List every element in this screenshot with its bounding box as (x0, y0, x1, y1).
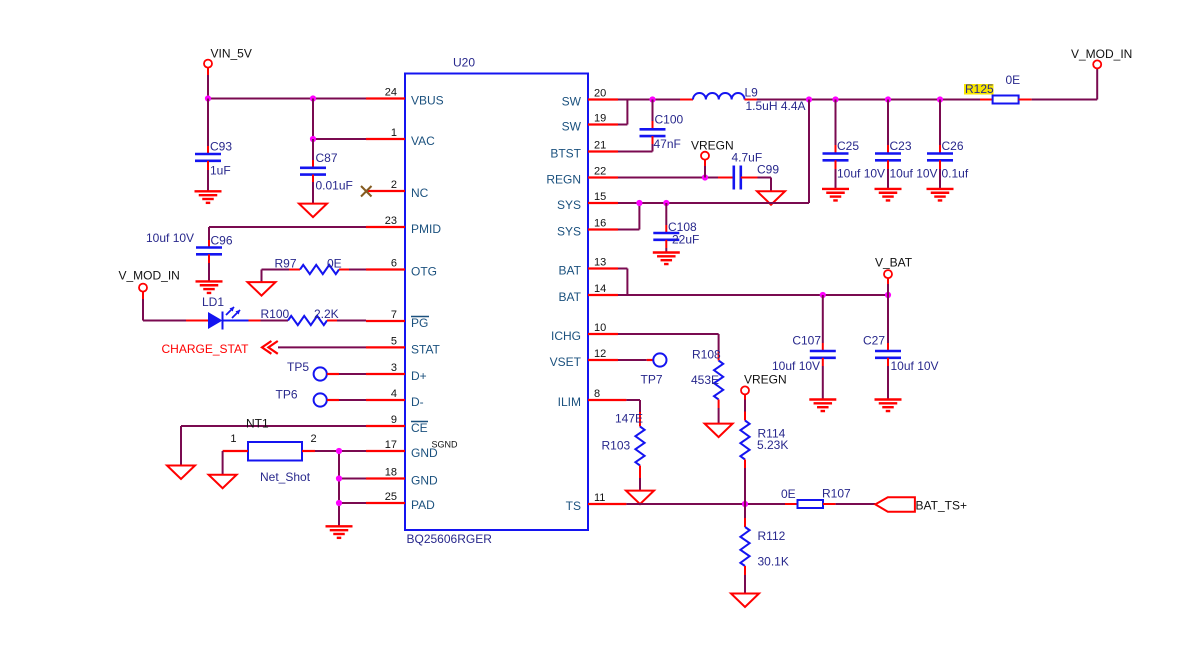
wire ICHG net (618, 334, 719, 352)
node VREGN port (top) (691, 139, 734, 178)
resistor R97 (275, 257, 367, 275)
node junction GND17 (336, 448, 342, 454)
svg-text:9: 9 (391, 414, 397, 426)
svg-text:PG: PG (411, 316, 428, 330)
test point TP7 (618, 353, 667, 386)
pin 8 ILIM (right) (558, 388, 627, 409)
svg-text:47nF: 47nF (654, 137, 681, 151)
svg-text:23: 23 (385, 215, 397, 227)
ground signal-gnd under GND column (326, 526, 353, 538)
pin 22 REGN (right) (546, 166, 618, 187)
svg-text:PAD: PAD (411, 498, 435, 512)
wire CE net (181, 426, 366, 466)
svg-text:VSET: VSET (550, 355, 582, 369)
pin 15 SYS (right) (557, 191, 618, 212)
svg-text:1.5uH 4.4A: 1.5uH 4.4A (746, 99, 806, 113)
svg-text:6: 6 (391, 258, 397, 270)
svg-text:V_BAT: V_BAT (875, 256, 913, 270)
svg-text:C107: C107 (792, 334, 821, 348)
node junction C26 (937, 96, 943, 102)
wire STAT net (278, 346, 366, 348)
capacitor C25 (823, 100, 886, 189)
wire SW net (618, 99, 680, 101)
svg-text:PMID: PMID (411, 222, 441, 236)
test point TP5 (287, 360, 366, 381)
wire ILIM net (626, 400, 640, 412)
svg-text:V_MOD_IN: V_MOD_IN (119, 269, 180, 283)
svg-text:10uf 10V: 10uf 10V (891, 359, 939, 373)
svg-text:13: 13 (594, 257, 606, 269)
svg-text:TP7: TP7 (641, 373, 663, 387)
node junction PAD (336, 500, 342, 506)
capacitor C107 (772, 295, 836, 400)
svg-text:STAT: STAT (411, 342, 441, 356)
svg-text:1uF: 1uF (210, 164, 231, 178)
svg-text:CE: CE (411, 421, 428, 435)
pin 4 D- (left) (366, 388, 424, 409)
svg-text:C26: C26 (942, 139, 964, 153)
ground signal-gnd under C93 (195, 191, 222, 203)
node junction C108 (663, 200, 669, 206)
ground signal-gnd under C26 (927, 189, 954, 201)
svg-text:10uf 10V: 10uf 10V (772, 359, 820, 373)
pin 13 BAT (right) (559, 257, 618, 278)
svg-text:30.1K: 30.1K (758, 555, 789, 569)
node junction GND18 (336, 475, 342, 481)
pin 3 D+ (left) (366, 362, 427, 383)
svg-text:C25: C25 (837, 139, 859, 153)
pin 19 SW (right) (562, 113, 618, 134)
svg-text:5.23K: 5.23K (757, 438, 788, 452)
pin 21 BTST (right) (550, 140, 618, 161)
node junction C107 (820, 292, 826, 298)
ground power-gnd under R103 (626, 491, 654, 505)
op-amp U1: IC U20 BQ25606RGER body (405, 56, 588, 547)
pin 1 VAC (left) (366, 127, 435, 148)
svg-text:BAT: BAT (559, 290, 582, 304)
node junction V_BAT (885, 292, 891, 298)
svg-text:0E: 0E (327, 257, 342, 271)
capacitor C87 (300, 139, 353, 204)
pin 10 ICHG (right) (551, 322, 618, 343)
capacitor C100 (640, 100, 684, 152)
svg-text:VBUS: VBUS (411, 94, 444, 108)
svg-text:VAC: VAC (411, 134, 435, 148)
svg-text:19: 19 (594, 113, 606, 125)
svg-text:OTG: OTG (411, 265, 437, 279)
svg-text:C23: C23 (890, 139, 912, 153)
pin 7 PG (left) (366, 309, 429, 330)
svg-text:5: 5 (391, 335, 397, 347)
svg-text:14: 14 (594, 283, 606, 295)
svg-text:ICHG: ICHG (551, 329, 581, 343)
svg-text:BTST: BTST (550, 147, 581, 161)
wire BAT net (618, 294, 888, 296)
wire PMID net (209, 227, 366, 248)
capacitor C23 (875, 100, 938, 189)
svg-text:0E: 0E (781, 487, 796, 501)
svg-text:4: 4 (391, 388, 397, 400)
pin 23 PMID (left) (366, 215, 441, 236)
node NT1 label (246, 417, 269, 431)
svg-text:20: 20 (594, 88, 606, 100)
wire BTST net (618, 151, 653, 153)
resistor R114 (740, 400, 788, 505)
svg-text:R100: R100 (261, 307, 290, 321)
svg-text:D-: D- (411, 395, 424, 409)
svg-text:1: 1 (230, 433, 236, 445)
svg-text:V_MOD_IN: V_MOD_IN (1071, 47, 1132, 61)
svg-text:BAT_TS+: BAT_TS+ (916, 499, 967, 513)
svg-text:22uF: 22uF (672, 233, 699, 247)
node junction C100 top (649, 96, 655, 102)
pin 5 STAT (left) (366, 335, 441, 356)
ground power-gnd under C99 (757, 191, 785, 205)
svg-text:R97: R97 (275, 257, 297, 271)
wire SW pin19 join (618, 100, 627, 125)
svg-text:C87: C87 (316, 151, 338, 165)
node junction C25 (832, 96, 838, 102)
test point TP6 (276, 388, 367, 407)
pin 20 SW (right) (562, 88, 618, 109)
svg-text:147E: 147E (615, 412, 643, 426)
svg-text:SW: SW (562, 95, 582, 109)
svg-text:TP5: TP5 (287, 360, 309, 374)
ground power-gnd on R97 (248, 282, 276, 296)
pin 14 BAT (right) (559, 283, 618, 304)
pin 17 GND (left) (366, 439, 458, 460)
svg-text:Net_Shot: Net_Shot (260, 470, 311, 484)
svg-text:21: 21 (594, 140, 606, 152)
wire V_MOD_IN net (1032, 68, 1098, 99)
ground signal-gnd under C25 (822, 189, 849, 201)
svg-text:10: 10 (594, 322, 606, 334)
pin 18 GND (left) (366, 467, 438, 488)
node BAT_TS+ port (875, 497, 967, 512)
svg-text:C93: C93 (210, 140, 232, 154)
svg-text:C96: C96 (211, 234, 233, 248)
svg-text:R108: R108 (692, 348, 721, 362)
node junction SYS drop (806, 96, 812, 102)
wire SW output rail (757, 99, 980, 101)
resistor R100 (249, 307, 367, 325)
svg-text:3: 3 (391, 362, 397, 374)
resistor R107 (781, 487, 875, 509)
wire TS net (626, 503, 785, 505)
ground power-gnd under R108 (705, 424, 733, 438)
node junction VAC (310, 136, 316, 142)
svg-text:10uf 10V: 10uf 10V (890, 167, 938, 181)
svg-text:VIN_5V: VIN_5V (211, 47, 252, 61)
node CHARGE_STAT sheet-entry (162, 341, 278, 356)
pin 2 NC (left) (366, 179, 429, 200)
svg-text:REGN: REGN (546, 173, 581, 187)
svg-text:U20: U20 (453, 56, 475, 70)
svg-text:15: 15 (594, 191, 606, 203)
svg-text:17: 17 (385, 439, 397, 451)
wire BAT pin13 join (618, 269, 627, 296)
svg-text:1: 1 (391, 127, 397, 139)
pin 12 VSET (right) (550, 348, 618, 369)
wire SYS net (618, 100, 809, 204)
svg-text:24: 24 (385, 87, 397, 99)
svg-text:7: 7 (391, 309, 397, 321)
svg-text:BQ25606RGER: BQ25606RGER (407, 532, 493, 546)
svg-text:2.2K: 2.2K (314, 307, 339, 321)
capacitor C96 (146, 231, 233, 281)
node V_MOD_IN port (left) (119, 269, 187, 321)
svg-text:R107: R107 (822, 487, 851, 501)
svg-text:SYS: SYS (557, 198, 581, 212)
capacitor C93 (195, 99, 232, 192)
resistor R103 (602, 412, 645, 491)
svg-text:VREGN: VREGN (744, 373, 787, 387)
pin 6 OTG (left) (366, 258, 437, 279)
node junction SYS16 (636, 200, 642, 206)
capacitor C27 (863, 295, 939, 400)
ground power-gnd under C87 (299, 204, 327, 218)
svg-text:C27: C27 (863, 334, 885, 348)
node V_MOD_IN port (right) (1071, 47, 1132, 68)
ground power-gnd on CE (167, 466, 195, 480)
resistor R125 (964, 73, 1032, 104)
svg-text:R112: R112 (758, 529, 786, 543)
no-connect X on pin 2 (361, 186, 372, 197)
svg-text:TS: TS (566, 499, 581, 513)
pin 24 VBUS (left) (366, 87, 444, 108)
node junction VIN/C93 (205, 95, 211, 101)
svg-text:BAT: BAT (559, 264, 582, 278)
capacitor C99 (718, 151, 779, 192)
resistor R112 (740, 504, 788, 594)
pin 16 SYS (right) (557, 218, 618, 239)
svg-text:GND: GND (411, 474, 438, 488)
svg-text:C100: C100 (655, 113, 684, 127)
resistor R108 (691, 348, 723, 424)
pin 11 TS (right) (566, 492, 627, 513)
ground signal-gnd under C107 (809, 400, 836, 412)
svg-text:R103: R103 (602, 439, 631, 453)
ground power-gnd on Net_Shot pin1 (209, 475, 237, 489)
node junction VREGN (702, 174, 708, 180)
pin 1 Net_Shot (223, 433, 248, 475)
wire REGN net (618, 177, 718, 179)
capacitor C26 (927, 100, 969, 189)
svg-text:12: 12 (594, 348, 606, 360)
svg-text:453E: 453E (691, 373, 719, 387)
wire VAC branch (313, 99, 366, 140)
ground signal-gnd under C27 (875, 400, 902, 412)
svg-text:NT1: NT1 (246, 417, 269, 431)
pin 9 CE (left) (366, 414, 428, 435)
LED LD1 (186, 295, 249, 330)
svg-text:C99: C99 (757, 163, 779, 177)
ground signal-gnd under C23 (875, 189, 902, 201)
svg-text:TP6: TP6 (276, 388, 298, 402)
svg-text:R125: R125 (965, 82, 994, 96)
wire OTG gnd branch (262, 270, 290, 283)
svg-text:SW: SW (562, 120, 582, 134)
svg-text:16: 16 (594, 218, 606, 230)
svg-text:0.1uf: 0.1uf (942, 167, 969, 181)
ground signal-gnd under C108 (653, 253, 680, 265)
svg-text:D+: D+ (411, 369, 427, 383)
svg-text:2: 2 (391, 179, 397, 191)
svg-text:0E: 0E (1006, 73, 1021, 87)
svg-text:L9: L9 (745, 86, 759, 100)
svg-text:25: 25 (385, 491, 397, 503)
svg-text:22: 22 (594, 166, 606, 178)
node VREGN port (bottom) (741, 373, 787, 400)
capacitor C108 (653, 203, 699, 253)
svg-text:8: 8 (594, 388, 600, 400)
svg-text:SYS: SYS (557, 225, 581, 239)
node junction C23 (885, 96, 891, 102)
svg-text:11: 11 (594, 492, 605, 504)
ground signal-gnd under C96 (196, 281, 223, 293)
svg-text:VREGN: VREGN (691, 139, 734, 153)
svg-text:10uf 10V: 10uf 10V (146, 231, 194, 245)
svg-text:0.01uF: 0.01uF (316, 179, 353, 193)
svg-text:CHARGE_STAT: CHARGE_STAT (162, 342, 250, 356)
wire SYS pin16 join (618, 203, 639, 230)
net-tie NT1 Net_Shot body (248, 442, 311, 484)
wire VBUS net (VIN_5V bus to pin 24) (208, 98, 366, 100)
ground power-gnd under R112 (731, 594, 759, 608)
node V_BAT port (875, 256, 913, 296)
node VIN_5V port (204, 47, 252, 99)
svg-text:2: 2 (311, 433, 317, 445)
inductor L9 (680, 86, 806, 114)
svg-text:LD1: LD1 (202, 295, 224, 309)
svg-text:ILIM: ILIM (558, 395, 581, 409)
node junction TS (742, 501, 748, 507)
svg-text:10uf 10V: 10uf 10V (837, 167, 885, 181)
wire GND column (339, 451, 366, 526)
pin 2 Net_Shot (302, 433, 339, 451)
svg-text:18: 18 (385, 467, 397, 479)
svg-text:SGND: SGND (432, 440, 459, 450)
node junction C87 branch (310, 95, 316, 101)
svg-text:NC: NC (411, 186, 429, 200)
pin 25 PAD (left) (366, 491, 435, 512)
